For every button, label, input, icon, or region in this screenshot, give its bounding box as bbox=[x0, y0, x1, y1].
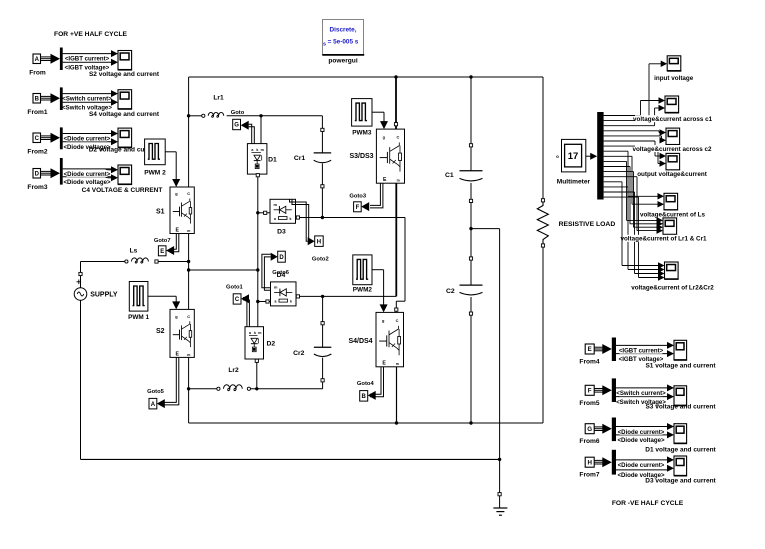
svg-text:E: E bbox=[382, 361, 386, 367]
svg-text:D3: D3 bbox=[277, 229, 286, 236]
demux wire to Lr1Cr1 scope input 2 bbox=[604, 166, 630, 168]
AC source SUPPLY bbox=[77, 281, 82, 283]
svg-text:D2: D2 bbox=[267, 341, 276, 348]
svg-text:From3: From3 bbox=[27, 184, 47, 191]
signal wire <voltage> row 1 bbox=[63, 61, 111, 63]
wire D4 cathode lead bbox=[258, 301, 271, 303]
wire C1 branch from top frame bbox=[470, 77, 472, 144]
scope block C4 VOLTAGE & CURRENT bbox=[118, 165, 132, 184]
signal wire voltage From7 bbox=[616, 469, 668, 471]
svg-text:k: k bbox=[290, 217, 292, 221]
bus selector bar From5 bbox=[612, 378, 616, 402]
inductor Lr2 bbox=[189, 388, 217, 390]
svg-text:<Diode current>: <Diode current> bbox=[618, 429, 665, 436]
svg-text:m: m bbox=[273, 202, 277, 207]
svg-text:voltage&current across c1: voltage&current across c1 bbox=[633, 116, 713, 123]
svg-text:powergui: powergui bbox=[328, 58, 357, 65]
IGBT block S2 bbox=[170, 309, 194, 357]
svg-text:D: D bbox=[35, 171, 40, 177]
demux wire to c1 scope input 2 bbox=[604, 125, 655, 127]
signal label <Diode current> From6 bbox=[620, 428, 663, 435]
wire S1 emitter rail to S2 bbox=[188, 234, 190, 310]
pulse generator PWM 1 bbox=[129, 282, 148, 312]
svg-text:From4: From4 bbox=[579, 359, 599, 366]
wire D3 anode lead bbox=[258, 212, 270, 214]
svg-text:D4: D4 bbox=[277, 272, 286, 279]
svg-text:input voltage: input voltage bbox=[654, 75, 694, 82]
measurement feed D3 to Goto2 [H] bbox=[290, 199, 308, 241]
scope output voltage&current bbox=[666, 153, 680, 169]
svg-text:PWM2: PWM2 bbox=[353, 286, 373, 293]
demux wire to output scope input 1 bbox=[604, 140, 655, 142]
svg-text:S2 voltage and current: S2 voltage and current bbox=[89, 71, 160, 78]
svg-text:Lr1: Lr1 bbox=[213, 95, 224, 102]
demux wire to Lr2Cr2 scope input 1 bbox=[604, 181, 622, 183]
signal label <Switch current> From5 bbox=[620, 389, 663, 396]
From tag block From2 [C] bbox=[33, 133, 41, 143]
diode block D1 bbox=[247, 144, 267, 175]
svg-text:Goto2: Goto2 bbox=[312, 256, 329, 262]
svg-text:k: k bbox=[256, 148, 258, 152]
goto tag Goto6 [D] bbox=[271, 253, 278, 261]
signal wire <voltage> row 4 bbox=[63, 176, 111, 178]
signal label <Diode voltage> From7 bbox=[620, 471, 663, 478]
svg-text:G: G bbox=[587, 426, 592, 433]
wire outer bottom return bus bbox=[81, 458, 500, 460]
svg-text:H: H bbox=[317, 239, 321, 245]
svg-text:C2: C2 bbox=[446, 288, 455, 295]
wire S3 emitter to D4 anode node bbox=[395, 183, 397, 296]
signal wire <current> row 1 bbox=[63, 53, 111, 55]
svg-text:SUPPLY: SUPPLY bbox=[90, 292, 118, 299]
svg-text:output voltage&current: output voltage&current bbox=[637, 171, 708, 178]
signal label <Diode current> row 4 bbox=[67, 170, 108, 177]
wire S4 emitter to bottom bus bbox=[396, 367, 398, 423]
svg-text:S4 voltage and current: S4 voltage and current bbox=[89, 111, 160, 118]
svg-text:<IGBT current>: <IGBT current> bbox=[65, 56, 110, 63]
svg-text:E: E bbox=[175, 352, 179, 358]
junction dot Lr2 tap bbox=[187, 387, 190, 390]
svg-text:k: k bbox=[290, 300, 292, 304]
junction dot C2 bottom on bottom bus bbox=[469, 421, 472, 424]
multimeter block bbox=[562, 139, 586, 172]
capacitor C2 bbox=[460, 284, 483, 286]
signal wire current From4 bbox=[616, 344, 668, 346]
svg-text:a: a bbox=[274, 217, 276, 221]
svg-text:FOR +VE HALF CYCLE: FOR +VE HALF CYCLE bbox=[54, 31, 128, 38]
wire PWM3 to S3 gate bbox=[372, 111, 384, 113]
wire multimeter to demux bbox=[586, 155, 592, 157]
wire PWM2 to S4 gate bbox=[372, 269, 384, 271]
svg-text:E: E bbox=[588, 346, 592, 353]
wire Lr1 to Cr1 corner bbox=[227, 115, 323, 117]
svg-text:PWM 1: PWM 1 bbox=[128, 314, 149, 321]
svg-text:Cr2: Cr2 bbox=[293, 350, 305, 357]
svg-text:From2: From2 bbox=[27, 149, 47, 156]
bus selector bar From7 bbox=[612, 450, 616, 475]
scope block D1 voltage and current bbox=[674, 424, 687, 443]
wire D2 cathode down bbox=[256, 359, 258, 389]
svg-text:a: a bbox=[275, 300, 277, 304]
scope block S2 voltage and current bbox=[118, 51, 132, 70]
svg-text:m: m bbox=[396, 362, 399, 366]
scope block D3 voltage and current bbox=[674, 456, 687, 475]
bus signal arrow from From1 to bus selector 2 bbox=[41, 95, 53, 97]
signal label <IGBT voltage> From4 bbox=[620, 355, 663, 362]
bus signal arrow from From to bus selector 1 bbox=[41, 56, 53, 58]
wire Lr2 to Cr2 bbox=[250, 388, 322, 390]
svg-text:s: s bbox=[323, 42, 326, 48]
svg-text:m: m bbox=[261, 148, 264, 152]
svg-text:Ls: Ls bbox=[130, 248, 138, 255]
svg-text:m: m bbox=[274, 285, 278, 290]
demux bus bar bbox=[597, 112, 603, 200]
bus signal arrow from From4 bbox=[594, 346, 604, 348]
svg-text:E: E bbox=[175, 228, 179, 234]
demux wire to input voltage scope bbox=[604, 120, 649, 122]
svg-text:S1: S1 bbox=[156, 209, 165, 216]
wire left rail down to S1 collector bbox=[188, 77, 190, 187]
signal label <Diode current> From7 bbox=[620, 461, 663, 468]
junction dot top frame at C1 branch bbox=[469, 75, 472, 78]
signal label <Switch voltage> row 2 bbox=[67, 104, 108, 111]
svg-text:A: A bbox=[35, 57, 40, 63]
From tag block From6 [G] bbox=[585, 424, 594, 434]
svg-text:C: C bbox=[187, 314, 190, 319]
bus signal arrow from From3 to bus selector 4 bbox=[41, 170, 53, 172]
wire midpoint to ground rail bbox=[471, 228, 500, 230]
demux wire to Lr1Cr1 scope input 3 bbox=[604, 171, 634, 173]
svg-text:k: k bbox=[254, 331, 256, 335]
scope input voltage bbox=[667, 56, 681, 71]
signal label <IGBT current> row 1 bbox=[67, 55, 108, 62]
wire right frame down to load bbox=[542, 77, 544, 199]
bus selector bar 2 bbox=[60, 87, 63, 110]
bus selector bar 4 bbox=[60, 158, 63, 185]
IGBT block S4/DS4 bbox=[376, 312, 404, 366]
junction node D1 anode tap bbox=[259, 114, 262, 117]
signal label <Diode voltage> From6 bbox=[620, 436, 663, 443]
svg-text:voltage&current of Ls: voltage&current of Ls bbox=[640, 211, 706, 218]
scope voltage&current across c1 bbox=[665, 96, 679, 112]
svg-text:RESISTIVE LOAD: RESISTIVE LOAD bbox=[559, 221, 616, 228]
wire ground stem bbox=[499, 459, 501, 492]
capacitor Cr1 bbox=[321, 116, 323, 129]
demux wire to c1 scope input 1 bbox=[604, 115, 641, 117]
svg-text:C: C bbox=[35, 136, 40, 142]
wire inner bottom bus bbox=[189, 422, 543, 424]
svg-text:From5: From5 bbox=[579, 400, 599, 407]
From tag block From [A] bbox=[33, 54, 41, 64]
svg-text:PWM3: PWM3 bbox=[352, 130, 372, 137]
svg-text:<Switch current>: <Switch current> bbox=[616, 390, 666, 397]
IGBT block S3/DS3 bbox=[376, 129, 404, 183]
demux wire to Lr2Cr2 scope input 2 bbox=[604, 186, 628, 188]
svg-text:voltage&current of Lr2&Cr2: voltage&current of Lr2&Cr2 bbox=[631, 285, 714, 292]
capacitor Cr2 bbox=[322, 382, 324, 389]
bus selector bar 1 bbox=[60, 48, 63, 71]
svg-text:E: E bbox=[383, 177, 387, 183]
signal wire current From6 bbox=[616, 426, 668, 428]
svg-text:voltage&current of Lr1 & Cr1: voltage&current of Lr1 & Cr1 bbox=[620, 236, 707, 243]
From tag block From4 [E] bbox=[585, 344, 594, 354]
wire supply positive to Ls bbox=[80, 262, 82, 273]
demux wire to Lr2Cr2 scope input 4 bbox=[604, 196, 639, 198]
svg-text:m: m bbox=[187, 229, 190, 233]
junction dot S4 emitter bottom bbox=[395, 421, 398, 424]
inductor Ls bbox=[81, 261, 125, 263]
svg-text:F: F bbox=[356, 205, 360, 211]
scope block S1 voltage and current bbox=[674, 340, 687, 359]
wire PWM 1 to S2 gate bbox=[148, 295, 176, 297]
measurement feed S3 to Goto3 [F] bbox=[370, 183, 380, 205]
svg-text:E: E bbox=[160, 249, 164, 255]
resistor RESISTIVE LOAD bbox=[537, 202, 548, 244]
diode block D3 bbox=[270, 199, 296, 223]
svg-text:S3 voltage and current: S3 voltage and current bbox=[645, 404, 716, 411]
svg-text:Goto: Goto bbox=[231, 110, 245, 116]
scope block S3 voltage and current bbox=[674, 386, 687, 405]
inductor Lr1 bbox=[189, 115, 202, 117]
svg-text:= 5e-005 s: = 5e-005 s bbox=[328, 39, 359, 46]
svg-text:D3 voltage and current: D3 voltage and current bbox=[645, 478, 716, 485]
svg-text:G: G bbox=[234, 123, 239, 129]
bus signal arrow from From6 bbox=[594, 426, 604, 428]
measurement feed D4 to Goto6 [D] bbox=[262, 254, 271, 288]
demux wire to Lr1Cr1 scope input 1 bbox=[604, 160, 627, 162]
junction node Ls to phase midpoint bbox=[187, 260, 190, 263]
IGBT block S1 bbox=[170, 187, 194, 234]
svg-text:D1 voltage and current: D1 voltage and current bbox=[645, 447, 716, 454]
wire top frame bus bbox=[189, 76, 543, 78]
svg-text:<Diode voltage>: <Diode voltage> bbox=[617, 437, 665, 444]
measurement feed S1 to Goto7 [E] bbox=[172, 234, 176, 250]
junction dot top frame at S3 rail bbox=[394, 75, 397, 78]
signal wire <current> row 2 bbox=[63, 93, 111, 95]
svg-text:C: C bbox=[235, 297, 240, 303]
svg-text:Goto3: Goto3 bbox=[349, 193, 367, 199]
svg-text:m: m bbox=[397, 178, 400, 182]
signal label <Diode current> row 3 bbox=[67, 135, 108, 142]
junction dot D3 anode bbox=[256, 211, 259, 214]
demux wire to c2 scope input 2 bbox=[604, 135, 662, 137]
junction node Lr1 tap bbox=[187, 114, 190, 117]
svg-text:o: o bbox=[556, 154, 559, 159]
svg-text:From1: From1 bbox=[27, 109, 47, 116]
bus signal arrow from From2 to bus selector 3 bbox=[41, 135, 53, 137]
signal wire <current> row 4 bbox=[63, 168, 111, 170]
svg-text:Discrete,: Discrete, bbox=[330, 27, 357, 34]
svg-text:<Diode voltage>: <Diode voltage> bbox=[63, 179, 111, 186]
wire PWM 2 to S1 gate bbox=[165, 151, 176, 153]
signal label <Switch current> row 2 bbox=[67, 95, 108, 102]
svg-text:Goto4: Goto4 bbox=[357, 381, 375, 387]
signal wire current From5 bbox=[616, 387, 668, 389]
junction dot D2 cathode tap bbox=[255, 387, 258, 390]
svg-text:S1 voltage and current: S1 voltage and current bbox=[645, 362, 716, 369]
svg-text:C: C bbox=[396, 318, 399, 323]
wire midpoint phase to bridge rail bbox=[189, 269, 258, 271]
svg-text:From7: From7 bbox=[579, 472, 599, 479]
goto tag Goto2 [H] bbox=[315, 236, 324, 247]
powergui block bbox=[323, 20, 364, 55]
signal wire voltage From5 bbox=[616, 396, 668, 398]
svg-text:C: C bbox=[187, 191, 190, 196]
signal wire <voltage> row 2 bbox=[63, 101, 111, 103]
junction dot ground tap bbox=[498, 458, 501, 461]
demux wire to Lr2Cr2 scope input 3 bbox=[604, 191, 635, 193]
svg-text:D: D bbox=[279, 255, 284, 261]
signal label <IGBT voltage> row 1 bbox=[67, 64, 108, 71]
From tag block From1 [B] bbox=[33, 94, 41, 104]
svg-text:S4/DS4: S4/DS4 bbox=[348, 338, 372, 345]
scope voltage&current across c2 bbox=[666, 128, 680, 144]
svg-text:Goto5: Goto5 bbox=[147, 389, 165, 395]
bus signal arrow from From5 bbox=[594, 388, 604, 390]
bus signal arrow from From7 bbox=[594, 459, 604, 461]
svg-text:Lr2: Lr2 bbox=[228, 367, 239, 374]
measurement feed D1 to Goto [G] bbox=[249, 124, 252, 143]
svg-text:m: m bbox=[187, 353, 190, 357]
svg-text:<Switch current>: <Switch current> bbox=[62, 96, 112, 103]
From tag block From5 [F] bbox=[585, 385, 594, 395]
svg-text:m: m bbox=[258, 331, 261, 335]
wire load bottom to bottom bus bbox=[542, 247, 544, 423]
diode block D2 bbox=[245, 327, 264, 359]
goto tag Goto7 [E] bbox=[158, 246, 166, 256]
svg-text:voltage&current across c2: voltage&current across c2 bbox=[632, 146, 712, 153]
capacitor C1 bbox=[460, 170, 483, 172]
svg-text:D1: D1 bbox=[268, 157, 277, 164]
measurement feed S2 to Goto5 [A] bbox=[164, 357, 176, 402]
junction dot Cr1 bottom on D3 cathode wire bbox=[321, 216, 324, 219]
svg-text:PWM 2: PWM 2 bbox=[144, 170, 166, 177]
scope voltage&current of Ls bbox=[664, 193, 678, 209]
svg-text:Multimeter: Multimeter bbox=[557, 179, 591, 186]
signal wire <current> row 3 bbox=[63, 133, 111, 135]
measurement feed S4 to Goto4 [B] bbox=[370, 367, 381, 394]
bus selector bar 3 bbox=[60, 127, 63, 149]
svg-text:Cr1: Cr1 bbox=[294, 155, 306, 162]
demux wire to Ls scope input 1 bbox=[604, 150, 628, 152]
goto tag Goto3 [F] bbox=[354, 202, 362, 212]
bus selector bar From6 bbox=[612, 418, 616, 442]
wire to C2 bbox=[470, 229, 472, 257]
pulse generator PWM 2 bbox=[145, 139, 166, 165]
From tag block From3 [D] bbox=[33, 169, 41, 179]
goto tag Goto4 [B] bbox=[360, 391, 368, 402]
demux wire to c2 scope input 1 bbox=[604, 130, 659, 132]
goto tag Goto5 [A] bbox=[149, 398, 157, 409]
svg-text:Goto1: Goto1 bbox=[226, 285, 244, 291]
svg-text:B: B bbox=[35, 96, 40, 102]
svg-text:A: A bbox=[151, 402, 156, 408]
svg-text:<Diode current>: <Diode current> bbox=[64, 136, 111, 143]
svg-text:S3/DS3: S3/DS3 bbox=[349, 153, 373, 160]
signal label <Switch voltage> From5 bbox=[620, 398, 663, 405]
svg-text:<Diode current>: <Diode current> bbox=[618, 462, 665, 469]
wire supply negative to bottom bus bbox=[80, 300, 82, 459]
wire D1 anode up bbox=[260, 116, 262, 144]
junction dot D4 cathode bbox=[256, 300, 259, 303]
goto tag Goto1 [C] bbox=[233, 294, 241, 304]
svg-text:Goto7: Goto7 bbox=[154, 238, 171, 244]
wire S3 collector from top frame bbox=[395, 77, 397, 123]
svg-text:<Diode current>: <Diode current> bbox=[64, 171, 111, 178]
svg-text:From6: From6 bbox=[579, 438, 599, 445]
svg-text:F: F bbox=[588, 387, 592, 394]
svg-text:B: B bbox=[362, 394, 367, 400]
pulse generator PWM2 bbox=[353, 255, 372, 285]
svg-text:<IGBT current>: <IGBT current> bbox=[619, 348, 664, 355]
wire D3 cathode to S4 collector bbox=[296, 216, 299, 219]
signal label <IGBT current> From4 bbox=[620, 347, 663, 354]
demux wire to Ls scope input 2 bbox=[604, 155, 632, 157]
signal label <Diode voltage> row 3 bbox=[67, 143, 108, 150]
demux wire to output scope input 2 bbox=[604, 145, 658, 147]
wire center bridge rail D1 to D2 bbox=[257, 173, 259, 327]
signal wire current From7 bbox=[616, 459, 668, 461]
svg-text:C: C bbox=[397, 135, 400, 140]
signal wire <voltage> row 3 bbox=[63, 141, 111, 143]
scope voltage&current of Lr2&Cr2 bbox=[665, 262, 679, 279]
ground symbol bbox=[493, 507, 507, 509]
scope block D2 voltage and current bbox=[118, 128, 132, 147]
svg-text:FOR -VE HALF CYCLE: FOR -VE HALF CYCLE bbox=[612, 500, 684, 507]
svg-text:H: H bbox=[587, 459, 592, 466]
demux wire to Lr1Cr1 scope input 4 bbox=[604, 176, 637, 178]
svg-text:From: From bbox=[29, 70, 46, 77]
measurement feed D2 to Goto1 [C] bbox=[243, 298, 247, 327]
scope block S4 voltage and current bbox=[118, 90, 132, 109]
wire S2 emitter down to bottom bus bbox=[188, 357, 190, 423]
scope voltage&current of Lr1 & Cr1 bbox=[663, 218, 677, 234]
bus selector bar From4 bbox=[612, 338, 616, 362]
From tag block From7 [H] bbox=[585, 457, 594, 467]
signal label <Diode voltage> row 4 bbox=[67, 178, 108, 185]
svg-text:C1: C1 bbox=[445, 172, 454, 179]
signal wire voltage From6 bbox=[616, 434, 668, 436]
wire D4 anode to S3 emitter bbox=[296, 295, 299, 298]
junction dot C1 C2 midpoint bbox=[469, 227, 472, 230]
signal wire voltage From4 bbox=[616, 353, 668, 355]
svg-text:S2: S2 bbox=[156, 328, 165, 335]
svg-text:17: 17 bbox=[568, 151, 579, 162]
junction dot Cr2 top tap bbox=[321, 295, 324, 298]
pulse generator PWM3 bbox=[352, 99, 372, 127]
svg-text:C4 VOLTAGE & CURRENT: C4 VOLTAGE & CURRENT bbox=[82, 187, 163, 194]
